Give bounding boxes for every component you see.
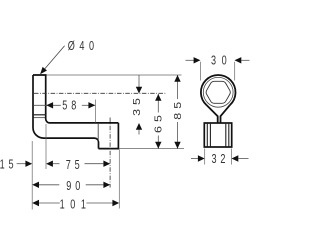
right view: clamp block <box>204 123 231 147</box>
svg-text:35: 35 <box>132 94 143 116</box>
left view: elbow pipe outline <box>33 75 118 149</box>
dimension 58 <box>34 99 95 113</box>
extension line left (x=32.2) <box>31 141 33 210</box>
dimension 65 (vertical) <box>153 94 164 149</box>
svg-text:101: 101 <box>60 198 92 212</box>
svg-text:85: 85 <box>173 98 184 120</box>
left view: outlet block left edge <box>97 124 99 141</box>
svg-text:75: 75 <box>66 159 84 173</box>
dimension 90 <box>32 180 110 194</box>
right view: ring outer circle <box>201 75 236 105</box>
svg-text:32: 32 <box>212 152 230 166</box>
extension line pipe right (x=46) <box>45 124 47 169</box>
dimension 32 <box>191 149 249 167</box>
extension line 101 right (x=119.3) <box>118 150 120 209</box>
dimension 35 (vertical) <box>132 75 143 135</box>
leader line for diameter 40 <box>40 46 65 74</box>
extension line bottom (y=148.6) <box>119 148 184 150</box>
dimension 101 <box>32 198 119 212</box>
svg-text:30: 30 <box>211 54 232 68</box>
extension line top (y=75) <box>47 74 182 76</box>
svg-text:15: 15 <box>0 158 17 172</box>
centerline horizontal (dash-dot) <box>34 92 165 94</box>
dimension 85 (vertical) <box>173 75 184 149</box>
right view: ring inner circle <box>203 77 233 107</box>
dimension 15 <box>0 158 32 172</box>
right view: neck / stem <box>207 105 230 122</box>
dimension 30 <box>186 54 250 80</box>
svg-text:Ø40: Ø40 <box>68 40 99 54</box>
centerline vertical of outlet (dash-dot) <box>109 118 111 188</box>
left view: socket joint lines inside inlet pipe <box>34 115 46 118</box>
right view: hex nut silhouette <box>206 81 230 103</box>
dimension 75 <box>46 159 110 173</box>
svg-text:90: 90 <box>66 180 84 194</box>
extension line 58 right (x=95.5) <box>95 100 97 123</box>
svg-text:65: 65 <box>153 111 164 133</box>
svg-text:58: 58 <box>62 99 80 113</box>
